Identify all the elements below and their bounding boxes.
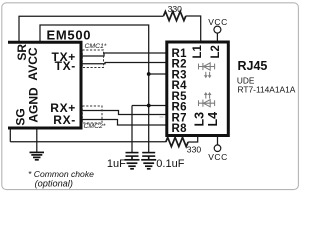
svg-text:L1: L1 bbox=[192, 44, 204, 58]
capacitor C1 1uF bbox=[126, 153, 139, 159]
svg-text:(optional): (optional) bbox=[35, 178, 73, 188]
wire TX- to R2 bbox=[81, 63, 166, 64]
svg-text:VCC: VCC bbox=[208, 152, 227, 162]
svg-text:EM500: EM500 bbox=[47, 28, 92, 43]
svg-text:L2: L2 bbox=[210, 45, 222, 58]
ground below C1 bbox=[125, 160, 140, 169]
svg-text:R8: R8 bbox=[172, 123, 188, 135]
common-mode choke CMC2 dashed box bbox=[82, 106, 102, 123]
svg-text:SG: SG bbox=[14, 108, 28, 125]
EM500 box (open left, thick top/right/bottom) bbox=[8, 42, 81, 128]
VCC top symbol bbox=[214, 26, 221, 33]
wire R6 row bbox=[132, 105, 166, 107]
wire capacitor C1 drop bbox=[131, 106, 133, 153]
svg-text:AGND: AGND bbox=[27, 87, 41, 123]
LED D2 inside RJ45 bbox=[199, 94, 215, 107]
svg-text:* Common choke: * Common choke bbox=[28, 169, 94, 179]
ground below AGND bbox=[30, 152, 45, 159]
wire R3 stub bbox=[149, 73, 166, 75]
svg-text:1uF: 1uF bbox=[107, 158, 126, 170]
wire resistor to L3 pin bbox=[188, 137, 198, 143]
wire RX+ to R7 bbox=[81, 111, 166, 115]
svg-text:RX-: RX- bbox=[53, 113, 76, 127]
VCC bottom symbol bbox=[214, 145, 221, 152]
wire TX+ to R1 bbox=[81, 53, 166, 56]
svg-text:0.1uF: 0.1uF bbox=[156, 158, 184, 170]
wire L4 pin to VCC bottom bbox=[217, 137, 219, 146]
wire AGND pin down bbox=[36, 129, 38, 152]
ground below C2 bbox=[141, 160, 156, 169]
wire AVCC tab: up, across, down to caps bbox=[40, 25, 149, 152]
wire RX- to R8 bbox=[81, 120, 166, 126]
resistor R-top 330 zigzag bbox=[164, 11, 186, 20]
LED D1 inside RJ45 bbox=[199, 63, 215, 77]
common-mode choke CMC1 dashed box bbox=[82, 50, 103, 68]
node junction dot R6 tap bbox=[147, 104, 151, 108]
faint erased stub artifact near R7 bbox=[160, 116, 164, 118]
svg-text:RT7-114A1A1A: RT7-114A1A1A bbox=[238, 85, 296, 95]
wire ground rail bbox=[10, 141, 166, 143]
svg-text:330: 330 bbox=[187, 144, 202, 154]
svg-text:AVCC: AVCC bbox=[26, 47, 40, 80]
svg-text:330: 330 bbox=[168, 4, 183, 14]
svg-text:TX-: TX- bbox=[55, 59, 76, 73]
wire VCC top stub to L2 pin bbox=[216, 33, 218, 41]
svg-text:CMC1*: CMC1* bbox=[85, 43, 107, 50]
svg-text:RJ45: RJ45 bbox=[238, 59, 268, 73]
svg-text:L3: L3 bbox=[192, 112, 206, 127]
node junction dot R3 tap bbox=[147, 72, 151, 76]
wire SR net: up from EM500 top, across top bbox=[19, 16, 164, 42]
wire SG pin down to ground rail bbox=[9, 129, 11, 142]
resistor R-bottom 330 zigzag bbox=[166, 137, 188, 146]
svg-text:VCC: VCC bbox=[208, 17, 227, 27]
capacitor C2 0.1uF bbox=[142, 153, 155, 159]
RJ45 connector box U-RJ45 bbox=[167, 42, 229, 136]
wire from resistor to RJ45 L1 pin bbox=[186, 16, 201, 41]
svg-text:L4: L4 bbox=[206, 112, 220, 127]
svg-text:CMC2*: CMC2* bbox=[84, 123, 106, 130]
